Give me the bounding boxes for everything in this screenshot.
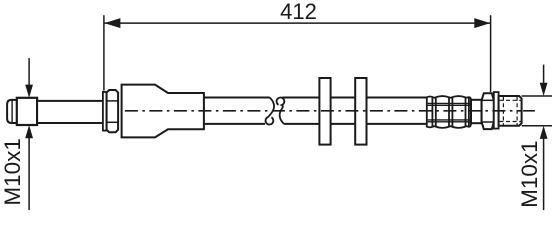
svg-text:M10x1: M10x1 bbox=[517, 140, 542, 208]
svg-text:M10x1: M10x1 bbox=[0, 138, 25, 206]
svg-text:412: 412 bbox=[280, 0, 317, 24]
